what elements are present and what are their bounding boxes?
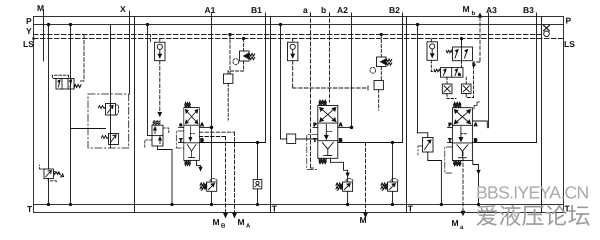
pilot relief valve 1 [98,104,118,117]
svg-text:T: T [272,204,278,214]
port B2 line [402,13,404,143]
shock valve A2 [336,179,353,192]
svg-text:B2: B2 [389,5,400,15]
svg-text:P: P [314,122,317,127]
svg-text:P: P [566,16,572,26]
LS dashed feedback wire [159,39,161,43]
shock valve B2 [381,179,398,192]
port A3 line [488,13,490,128]
port M line [43,10,45,61]
section divider 2 [270,17,272,213]
port b line dashed [329,13,331,102]
port X line [129,11,131,94]
svg-text:T: T [449,138,452,143]
svg-text:M: M [238,217,245,227]
cluster dashed wires [461,61,463,68]
reducing valve pilot dashed frame [53,75,69,78]
cluster valve 1 [446,37,472,60]
svg-text:A: A [200,122,204,127]
work line A [338,126,352,128]
anti-cavitation check wire [257,143,259,180]
svg-text:T: T [180,138,183,143]
P feed wire [280,25,282,140]
pilot a wire to cap [311,167,316,169]
svg-text:A: A [339,122,343,127]
P drop wire [48,25,50,170]
main spool V2 [318,100,338,163]
pressure compensator [145,121,169,148]
measuring line MB dashed [199,136,225,138]
svg-text:B: B [339,138,343,143]
spool drain step wire [197,160,201,170]
P feed wire [417,25,419,133]
svg-text:M: M [360,215,367,225]
svg-text:P: P [449,122,452,127]
compensator drain wire [158,146,173,205]
measuring line Ma dashed [462,152,464,211]
pilot orifice box [229,35,231,75]
P feed wire [147,25,149,136]
pilot check with orifice [370,33,392,80]
svg-text:b: b [321,5,326,15]
LS check valve [288,42,298,61]
inlet relief valve bottom [40,165,64,183]
svg-text:LS: LS [564,39,575,49]
svg-text:X: X [120,4,126,14]
measuring line MA dashed [199,131,234,133]
pilot relief valve 2 [101,134,118,145]
shuttle box 2 [462,84,472,94]
LS check valve [155,42,165,61]
LS junction dot at frame [32,37,35,40]
svg-text:M: M [213,217,220,227]
pressure reducing valve [53,75,82,89]
svg-text:A3: A3 [486,5,497,15]
svg-text:b: b [472,10,476,17]
work line B [199,142,265,144]
step arrow [473,161,479,174]
port stub left P [448,126,453,128]
second vertical wire [70,25,72,205]
spool pilot cap dash-dot [176,131,184,148]
svg-text:b: b [473,62,476,67]
P bus [34,24,564,26]
svg-text:a: a [460,225,464,231]
svg-text:A: A [474,122,478,127]
LS check valve [427,42,437,61]
pilot wire vertical [110,25,112,149]
junction dots [47,23,49,25]
svg-text:T: T [408,204,414,214]
svg-text:A2: A2 [337,5,348,15]
port stub left A [179,126,184,128]
svg-text:B1: B1 [251,5,262,15]
overload valve wires [418,132,428,134]
svg-text:LS: LS [23,39,34,49]
work line B [473,142,537,144]
step arrow [331,162,348,176]
drain wire [71,128,106,130]
port B1 line [265,13,267,143]
tick below a [310,13,312,16]
spool pilot cap dash-dot [445,147,453,173]
pilot dashed wire from Y bus [83,35,85,81]
work line A [199,126,211,128]
measuring line M dashed [365,143,367,214]
bottom port labels [213,215,465,231]
svg-text:M: M [452,218,459,228]
port B3 line [536,13,538,143]
svg-text:a: a [458,72,461,77]
svg-text:B3: B3 [523,5,534,15]
svg-text:BBS.IYEYA.CN: BBS.IYEYA.CN [476,182,589,202]
right port labels [272,16,575,214]
step dashes [474,102,480,109]
svg-text:A1: A1 [205,5,216,15]
LS bus dashed [34,38,564,40]
svg-text:M: M [463,4,470,14]
main spool V3 [452,103,472,166]
port A1 line [211,13,213,182]
shock valve A1 [200,179,217,192]
Y bus dashed [34,34,542,36]
port stub left P [313,126,318,128]
shuttle box 1 [442,84,452,94]
svg-text:a: a [303,5,308,15]
reducing valve spring [74,85,81,89]
port A2 line [351,13,353,127]
pilot control dash-dot box [88,94,129,148]
overload valve box [418,138,433,156]
anti-cavitation check valve [253,180,262,189]
port stub left T [448,142,453,144]
svg-text:B: B [200,138,204,143]
pilot check with orifice [228,37,255,74]
pilot orifice box [374,81,383,90]
port stub left T [179,142,184,144]
cluster valve 2 [434,68,463,78]
svg-text:M: M [37,3,44,13]
left port labels [23,16,34,214]
work line A [473,121,488,128]
svg-text:B: B [474,138,478,143]
end plate divider [541,17,543,213]
work line B [338,142,403,144]
svg-text:T: T [314,138,317,143]
svg-text:T: T [27,204,33,214]
pressure compensator box [287,134,296,144]
spool pilot cap dash-dot [307,135,318,170]
svg-text:P: P [26,16,32,26]
top port labels [37,3,534,17]
plugged port X symbol [544,25,550,31]
spool drain step wire [330,158,332,162]
port Mb arrow and dashed line [478,14,481,18]
svg-text:a: a [180,122,183,127]
svg-text:Y: Y [26,26,32,36]
LS dashed feedback wire [292,39,294,43]
svg-text:A: A [246,223,251,230]
main spool V1 [184,102,200,165]
port a line dashed [310,13,312,168]
section divider 1 [134,17,136,213]
svg-text:爱液压论坛: 爱液压论坛 [476,203,591,229]
section divider 3 [406,17,408,213]
svg-text:B: B [221,223,226,230]
T bus line [34,204,564,206]
frame outer [34,17,564,213]
